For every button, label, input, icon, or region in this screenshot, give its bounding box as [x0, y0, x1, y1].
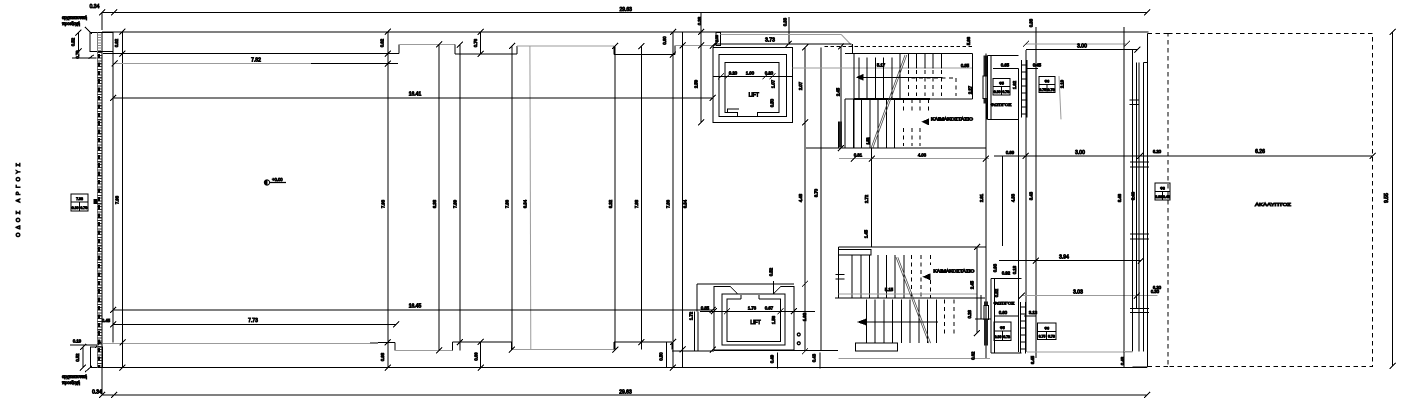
witness 0.49	[777, 353, 779, 369]
svg-text:4.33: 4.33	[1011, 193, 1016, 202]
svg-text:0.38: 0.38	[1029, 18, 1034, 27]
interior grid line x480.7	[480, 32, 482, 368]
svg-text:προεξοχή: προεξοχή	[62, 21, 81, 26]
upper stair treads right (short solid above gray line)	[908, 54, 941, 69]
top wall: recessed segment D y46 (gray)	[517, 45, 614, 47]
lower stair bottom dim line	[838, 357, 990, 359]
bottom wall: recessed segment F y351	[672, 350, 714, 352]
top wall: step at 672	[672, 54, 675, 56]
top wall: step at 396	[396, 53, 399, 55]
stair dim line 0.81 / 4.03	[839, 156, 989, 162]
top wall: recessed segment B y44.5 (gray)	[399, 44, 455, 46]
bottom wall: recessed segment D y349.6 (gray)	[512, 349, 614, 351]
lower stair right dim 2.45	[974, 244, 980, 336]
corridor grid line x805	[804, 48, 806, 352]
upper stair dashed treads below landing	[904, 99, 929, 146]
svg-text:προεξοχή: προεξοχή	[62, 380, 81, 385]
interior grid line x439.1	[438, 45, 440, 351]
bottom wall: segment E y342	[614, 341, 672, 343]
svg-text:0.34: 0.34	[90, 4, 100, 10]
bottom wall: step at 389	[389, 341, 395, 343]
bottom wall: step at 614	[613, 342, 615, 350]
svg-text:1.62: 1.62	[1012, 80, 1017, 89]
svg-text:0.33: 0.33	[783, 17, 788, 26]
witness x697	[696, 284, 698, 312]
svg-text:0.90: 0.90	[994, 90, 1001, 94]
svg-text:1.73: 1.73	[748, 306, 757, 311]
lower window tag box B	[1037, 323, 1056, 339]
interior grid line x387.8	[387, 32, 389, 368]
svg-text:0.78: 0.78	[1048, 88, 1055, 92]
svg-text:2.61: 2.61	[979, 193, 984, 202]
right dim line 8.46	[1123, 27, 1125, 368]
svg-text:4.03: 4.03	[918, 153, 927, 158]
svg-text:2.45: 2.45	[970, 280, 975, 289]
top wall: segment A y53.5	[103, 53, 396, 55]
bottom wall: segment A y343 gray part	[103, 342, 370, 344]
svg-text:0.65: 0.65	[1001, 63, 1010, 68]
svg-text:6.34: 6.34	[683, 199, 688, 208]
svg-text:6.26: 6.26	[1255, 149, 1265, 155]
svg-text:0.52: 0.52	[71, 37, 76, 46]
svg-text:0.50: 0.50	[659, 352, 664, 361]
dim 0.60 / 3.13 lower	[995, 315, 1036, 317]
top wall: segment C y54	[455, 53, 514, 55]
right dimension line 9.55	[1390, 29, 1396, 369]
grid line x871.5 between stairs	[871, 148, 873, 247]
svg-text:Φ8: Φ8	[1160, 187, 1165, 191]
svg-text:0.50: 0.50	[770, 98, 775, 107]
grid line x1002.7	[1002, 156, 1004, 246]
akalyptos connecting dashes bottom	[1148, 366, 1169, 368]
svg-text:7.86: 7.86	[505, 199, 510, 208]
svg-text:ΦΩΤ/ΓΟΣ: ΦΩΤ/ΓΟΣ	[991, 102, 1013, 107]
lower lift dim line	[700, 308, 815, 314]
svg-text:Φ6: Φ6	[1044, 326, 1049, 330]
upper window tag box A	[993, 78, 1010, 95]
corridor bottom wall line above lower lift	[697, 283, 794, 285]
svg-text:16.41: 16.41	[409, 92, 422, 98]
svg-text:αρχιτεκτονική: αρχιτεκτονική	[62, 15, 88, 20]
wall section mark left	[94, 199, 98, 204]
svg-text:0.78: 0.78	[1002, 90, 1009, 94]
top right corner lines	[1144, 62, 1148, 64]
upper stair dashed horizontal y78.2	[912, 77, 956, 79]
svg-text:0.76: 0.76	[80, 206, 87, 210]
upper window tag box B	[1039, 76, 1055, 92]
svg-text:0.60: 0.60	[662, 36, 667, 45]
svg-text:0.48: 0.48	[1163, 195, 1170, 199]
svg-text:1.56: 1.56	[771, 315, 776, 324]
svg-text:Φ5: Φ5	[999, 82, 1004, 86]
svg-text:3.00: 3.00	[1075, 150, 1085, 156]
witness pair near x697	[694, 311, 698, 351]
svg-text:3.13: 3.13	[1029, 310, 1038, 315]
dim line 7.73 bottom	[110, 321, 399, 327]
interior grid line x113	[112, 51, 114, 342]
tag box right	[1155, 183, 1170, 200]
dim 3.94 line	[999, 258, 1144, 264]
note top-left: architectural projection	[62, 15, 92, 34]
akalyptos connecting dashes top	[1148, 33, 1169, 35]
lower stair dim line	[838, 293, 977, 295]
svg-text:0.90: 0.90	[72, 206, 79, 210]
bottom wall: step at 452.5	[452, 342, 454, 351]
dim 3.73 above lift	[713, 41, 792, 47]
lower stair-fot wall filled with window	[984, 302, 988, 306]
svg-text:3.94: 3.94	[1059, 254, 1069, 260]
room top wall line y49.7	[1026, 47, 1141, 53]
svg-text:2.59: 2.59	[694, 79, 699, 88]
lower lift outer box with chamfers	[714, 286, 794, 350]
lower stair dashed treads right	[944, 299, 953, 333]
long mid dim line right section	[994, 153, 1376, 159]
small line x972	[972, 54, 974, 99]
upper stair dashed corner vertical x956	[955, 78, 957, 96]
dashed line above upper stair	[825, 45, 974, 47]
svg-text:9.55: 9.55	[1384, 193, 1390, 203]
upper fotagogos room box	[988, 56, 1019, 120]
svg-text:0.85: 0.85	[961, 63, 970, 68]
stairwell label upper with arrow	[921, 116, 974, 125]
svg-text:0.92: 0.92	[1002, 271, 1011, 276]
bottom wall: segment A black part	[370, 341, 389, 344]
svg-text:0.18: 0.18	[1012, 265, 1017, 274]
projection box bottom-left	[91, 347, 103, 368]
dim line 16.41	[110, 95, 716, 101]
dim 3.03 line	[1019, 293, 1158, 299]
svg-text:ΚΛΙΜΑΚΟΣΤΑΣΙΟ: ΚΛΙΜΑΚΟΣΤΑΣΙΟ	[931, 116, 974, 121]
top wall: recessed segment F y45.6 (gray)	[675, 45, 713, 47]
upper stair second flight treads below landing	[845, 99, 895, 148]
upper stair landing line thin	[845, 98, 973, 100]
top projection line	[102, 31, 1149, 33]
svg-text:1.72: 1.72	[689, 311, 694, 320]
svg-text:4.48: 4.48	[798, 193, 803, 202]
lower fotagogos room box	[991, 279, 1022, 353]
svg-text:0.62: 0.62	[971, 351, 976, 360]
grid line x1035.9	[1035, 27, 1037, 358]
svg-text:0.93: 0.93	[993, 263, 998, 272]
svg-text:7.86: 7.86	[666, 199, 671, 208]
lower lift middle box	[722, 294, 785, 345]
svg-text:0.52: 0.52	[75, 353, 80, 362]
svg-text:8.46: 8.46	[1117, 193, 1122, 202]
lower stair top lintel	[838, 249, 871, 255]
bottom dimension line 29.63	[99, 392, 1150, 398]
svg-text:16.45: 16.45	[409, 304, 422, 310]
lower lift car box with door opening	[727, 299, 781, 342]
witness ticks on top projection line and wall steps	[119, 29, 716, 58]
svg-text:0.34: 0.34	[92, 390, 102, 396]
bottom secondary line y367.6	[102, 367, 1147, 369]
svg-text:0.93: 0.93	[1155, 195, 1162, 199]
upper stair dashed treads below gray line	[908, 70, 941, 96]
upper lift interior dim line	[713, 73, 793, 79]
lower window ladder strip	[1021, 302, 1026, 353]
svg-text:LIFT: LIFT	[750, 320, 760, 326]
svg-text:0.85: 0.85	[701, 306, 710, 311]
svg-text:6.34: 6.34	[523, 199, 528, 208]
dim 0.19 bottom-left	[70, 342, 101, 348]
svg-text:0.62: 0.62	[380, 38, 385, 47]
elevation marker +0.00	[264, 177, 286, 185]
bottom wall: step at 672	[671, 342, 673, 350]
svg-text:6.38: 6.38	[432, 199, 437, 208]
svg-text:0.78: 0.78	[1048, 335, 1055, 339]
svg-text:3.03: 3.03	[1073, 289, 1083, 295]
svg-text:ΦΩΤ/ΓΟΣ: ΦΩΤ/ΓΟΣ	[994, 301, 1016, 306]
svg-text:Φ6: Φ6	[1045, 80, 1050, 84]
interior grid line x459.8	[459, 45, 461, 351]
svg-text:7.89: 7.89	[453, 199, 458, 208]
svg-text:0.75: 0.75	[1039, 88, 1046, 92]
interior grid line x682.6	[682, 32, 684, 368]
tag box left (window schedule)	[71, 194, 88, 211]
bottom wall: recessed segment B y350.5 (gray)	[395, 350, 453, 352]
right wall outer line	[1147, 34, 1149, 368]
corridor grid line x821	[820, 48, 822, 351]
lower room bottom gray line	[1027, 351, 1132, 353]
dim line 16.45 bottom	[110, 307, 716, 313]
svg-text:LIFT: LIFT	[749, 93, 759, 99]
upper window ladder strip	[1022, 60, 1028, 118]
svg-text:0.60: 0.60	[999, 310, 1008, 315]
svg-text:2.45: 2.45	[836, 87, 841, 96]
svg-text:7.82: 7.82	[251, 58, 261, 64]
witness line lower lift door	[773, 281, 775, 294]
svg-text:0.75: 0.75	[1039, 335, 1046, 339]
svg-text:0.49: 0.49	[770, 354, 775, 363]
upper stair bottom line	[806, 147, 986, 149]
top wall: step at 614	[613, 46, 615, 55]
lower stair mid line	[835, 297, 985, 299]
upper stair direction arrow	[856, 74, 943, 81]
svg-text:6.45: 6.45	[1030, 355, 1035, 364]
left dimension line 9.55	[101, 368, 103, 395]
corridor line x841	[840, 46, 842, 148]
svg-text:0.45: 0.45	[102, 318, 111, 323]
witness x666.3	[665, 342, 667, 367]
svg-text:5.17: 5.17	[877, 63, 886, 68]
interior grid line x529.9 gray	[529, 46, 532, 350]
upper stair treads left flight (full solid)	[859, 54, 900, 99]
svg-text:ΟΔΟΣ ΑΡΓΟΥΣ: ΟΔΟΣ ΑΡΓΟΥΣ	[16, 162, 22, 237]
svg-text:0.68: 0.68	[380, 352, 385, 361]
upper lift shaft outer box	[713, 48, 793, 123]
svg-text:0.43: 0.43	[812, 353, 817, 362]
dim line 2.59 vertical x700	[698, 13, 704, 126]
upper stair top line	[845, 53, 973, 55]
upper lift door notch	[728, 109, 739, 113]
top wall: step at 514	[514, 53, 517, 55]
lower stair block top line	[838, 246, 985, 248]
svg-text:0.52: 0.52	[994, 288, 999, 297]
svg-text:0.67: 0.67	[765, 306, 774, 311]
svg-text:1.00: 1.00	[746, 71, 755, 76]
svg-text:0.45: 0.45	[1033, 63, 1042, 68]
interior grid line x512	[511, 46, 513, 350]
svg-text:0.20: 0.20	[765, 71, 774, 76]
interior grid line x673	[672, 32, 674, 368]
top dimension line 29.63	[99, 10, 1150, 31]
lower stair left wall	[837, 247, 839, 298]
svg-text:5.66: 5.66	[966, 36, 971, 45]
svg-text:Φ5: Φ5	[1000, 326, 1005, 330]
svg-text:2.27: 2.27	[968, 85, 973, 94]
svg-text:2.07: 2.07	[798, 81, 803, 90]
svg-text:1.52: 1.52	[866, 138, 870, 145]
svg-text:29.63: 29.63	[619, 7, 632, 13]
lower stair direction arrow	[857, 319, 938, 326]
svg-text:0.52: 0.52	[769, 267, 774, 276]
dim 0.52 bottom-left vertical line + rotated label	[80, 344, 86, 371]
svg-text:29.63: 29.63	[619, 390, 632, 396]
lower stair upper treads dashed	[912, 255, 931, 298]
upper stair diagonal double	[871, 55, 907, 148]
dim line 7.82 (gray)	[112, 61, 399, 67]
stairwell label lower with arrow	[923, 268, 976, 280]
lower stair window break ticks	[835, 274, 844, 279]
svg-text:3.73: 3.73	[765, 38, 775, 44]
svg-text:0.28: 0.28	[967, 310, 972, 319]
lower stair landing rect	[855, 343, 897, 351]
bottom wall: step at 511.6	[511, 342, 513, 350]
upper stair right wall double with window	[984, 56, 988, 76]
right wall bottom	[1124, 351, 1148, 367]
top wall: step at 455	[454, 45, 456, 55]
note bottom-left: architectural projection	[62, 366, 92, 385]
front wall hatch rungs	[98, 52, 103, 368]
upper stair left wall	[853, 54, 855, 149]
leader 2.19	[1059, 76, 1061, 119]
svg-text:+0.00: +0.00	[272, 177, 283, 182]
svg-text:0.76: 0.76	[473, 38, 478, 47]
svg-text:0.81: 0.81	[854, 153, 863, 158]
dim 0.79 top-left rotated	[72, 55, 97, 59]
svg-text:6.32: 6.32	[608, 199, 613, 208]
interior grid line x615.2	[614, 46, 616, 350]
dim 0.52 top-left vertical line + rotated label	[76, 30, 82, 55]
svg-text:6.20: 6.20	[1153, 285, 1162, 290]
interior grid line x122.4 with 0.62 dim	[121, 32, 123, 368]
grid line x1018.5	[1018, 69, 1020, 352]
svg-text:0.78: 0.78	[1003, 335, 1010, 339]
svg-text:0.69: 0.69	[474, 352, 479, 361]
svg-text:7.98: 7.98	[76, 197, 83, 201]
svg-text:ΑΚΑΛΥΠΤΟΣ: ΑΚΑΛΥΠΤΟΣ	[1255, 202, 1291, 207]
stair side wall filled (cut)	[838, 121, 842, 147]
svg-text:2.72: 2.72	[864, 194, 869, 203]
svg-text:1.45: 1.45	[864, 229, 869, 238]
svg-text:0.20: 0.20	[729, 71, 738, 76]
bottom wall segment under lift	[714, 350, 838, 352]
svg-text:7.88: 7.88	[634, 199, 639, 208]
svg-text:αρχιτεκτονική: αρχιτεκτονική	[62, 374, 88, 379]
upper lift shaft middle box	[719, 55, 787, 117]
svg-text:7.98: 7.98	[381, 199, 386, 208]
upper lift car box with door opening	[725, 63, 779, 117]
svg-text:1.07: 1.07	[771, 79, 776, 88]
witness 0.43	[819, 353, 821, 369]
bottom wall: segment C y342	[453, 341, 512, 343]
grid line x1026	[1025, 50, 1027, 352]
upper stair landing line (thick part)	[854, 98, 930, 100]
svg-text:0.90: 0.90	[995, 335, 1002, 339]
svg-text:7.73: 7.73	[248, 318, 258, 324]
svg-text:5.15: 5.15	[885, 287, 894, 292]
dim 0.65 / 0.45 upper	[993, 68, 1038, 70]
lower stair upper treads solid	[852, 255, 904, 298]
lower lift door stubs	[741, 295, 759, 299]
two circles column symbol	[797, 332, 801, 345]
lower window tag box A	[994, 322, 1011, 340]
svg-text:0.62: 0.62	[114, 38, 119, 47]
svg-text:6.20: 6.20	[1153, 149, 1162, 154]
interior grid line x641.3	[640, 46, 642, 350]
svg-text:ΚΛΙΜΑΚΟΣΤΑΣΙΟ: ΚΛΙΜΑΚΟΣΤΑΣΙΟ	[933, 268, 975, 273]
right exterior wall pair	[1130, 50, 1149, 352]
svg-text:0.69: 0.69	[1006, 150, 1015, 155]
svg-text:3.00: 3.00	[1077, 44, 1087, 50]
grid line x986	[985, 54, 987, 359]
lower stair lower treads solid	[866, 299, 936, 343]
gray corridor line y68	[793, 67, 973, 69]
projection box top-left	[90, 33, 113, 52]
svg-text:2.19: 2.19	[1060, 79, 1065, 88]
witness ticks on bottom wall steps	[119, 339, 716, 371]
svg-text:8.70: 8.70	[814, 188, 819, 197]
dim 3.00 upper right room	[1023, 41, 1130, 47]
svg-text:3.43: 3.43	[1029, 191, 1034, 200]
svg-text:0.19: 0.19	[73, 339, 82, 344]
akalyptos dashed rect	[1168, 34, 1373, 367]
svg-text:7.98: 7.98	[114, 195, 119, 204]
column box top at lift	[715, 32, 720, 45]
top wall: segment E y54.6	[614, 54, 672, 56]
front wall ladder strip (street facade)	[98, 33, 103, 368]
svg-text:0.79: 0.79	[75, 50, 80, 59]
top link line lift to stair	[789, 43, 852, 45]
lower stair diagonal double	[896, 257, 931, 343]
